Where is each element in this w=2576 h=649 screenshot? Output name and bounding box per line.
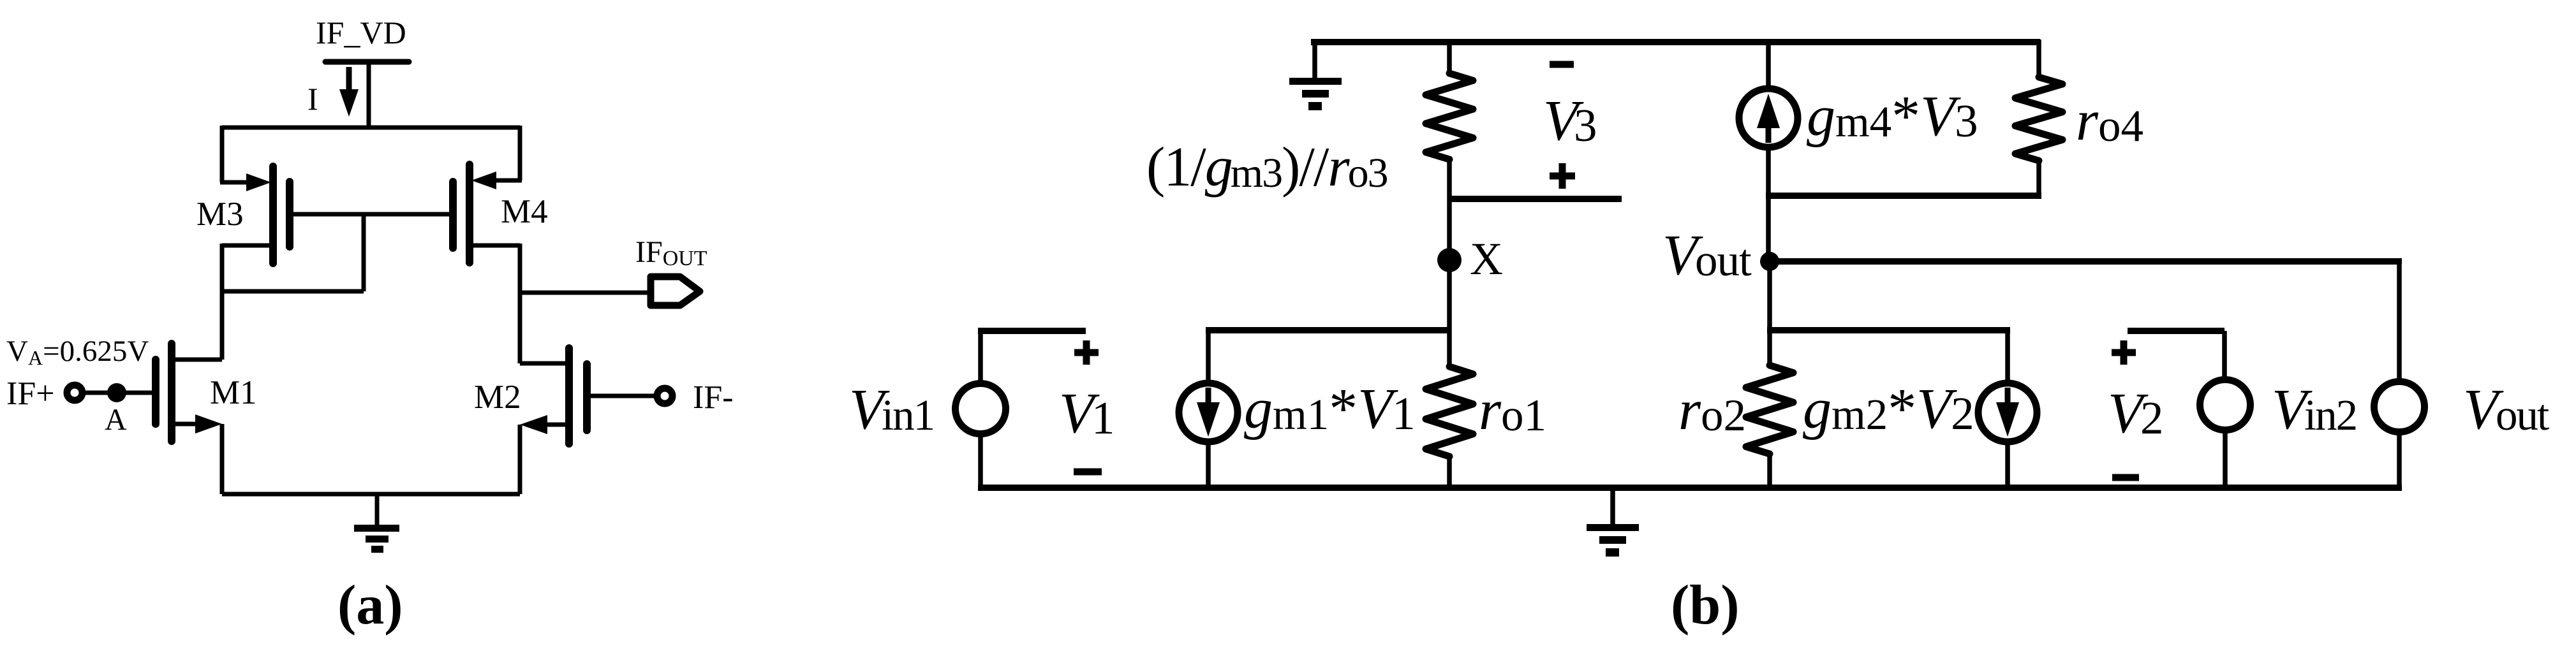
svg-text:IF_VD: IF_VD: [316, 15, 406, 50]
wire Vin1 plus stub: [978, 328, 1086, 334]
ground (a) bars: [354, 525, 399, 532]
current source gm4 circle: [1739, 89, 1798, 147]
wire Vout to ro2: [1767, 261, 1772, 330]
wire M2 gate: [591, 394, 655, 398]
wire left vertical bottom (M1 source): [220, 424, 225, 494]
transistor M4 channel bar: [466, 164, 473, 263]
transistor M3 gate bar: [286, 182, 293, 247]
svg-text:A: A: [105, 403, 127, 437]
current source gm2 arrow: [2005, 388, 2011, 405]
wire gm4 top lead: [1766, 40, 1771, 92]
transistor M2 channel bar: [565, 348, 573, 444]
wire M1 source stub: [172, 422, 204, 427]
svg-text:M3: M3: [196, 196, 244, 233]
power rail symbol IF_VD bar: [325, 59, 409, 65]
wire node A to M1 gate: [117, 391, 153, 395]
svg-text:IF+: IF+: [6, 376, 55, 412]
wire ro2/gm2 top join: [1767, 327, 2010, 333]
wire node X down: [1447, 260, 1452, 367]
wire gm4 bottom lead to Vout: [1766, 147, 1771, 261]
transistor M4 gate bar: [449, 182, 457, 248]
minus sign V1: [1074, 469, 1102, 476]
ground top-left bars: [1289, 78, 1342, 85]
wire Vout circle bottom lead: [2397, 432, 2402, 488]
current source gm4 arrow: [1757, 94, 1780, 128]
plus sign V3: [1550, 163, 1575, 189]
node A dot: [107, 383, 126, 402]
svg-text:gm2*V2: gm2*V2: [1803, 377, 1974, 441]
ground top-left stub: [1312, 40, 1317, 78]
wire M3 drain stub: [222, 244, 273, 248]
transistor M1 gate bar: [152, 360, 159, 424]
M3 source arrow: [246, 173, 271, 191]
wire M1 drain stub: [172, 358, 222, 362]
wire bottom (a): [222, 492, 520, 497]
svg-text:IF-: IF-: [693, 379, 734, 416]
wire ro1 bottom lead: [1447, 456, 1452, 488]
wire M4 drain stub: [470, 244, 520, 248]
wire IF+ to node A: [84, 391, 117, 395]
wire gate tie vertical: [362, 214, 366, 291]
svg-text:VA=0.625V: VA=0.625V: [6, 335, 149, 369]
wire gm1 bottom lead: [1206, 442, 1211, 488]
wire right vertical top (M4 source): [518, 126, 522, 180]
wire M2 drain stub: [520, 361, 569, 366]
wire bottom rail (b): [978, 485, 2402, 491]
current arrow I: [346, 67, 352, 92]
source Vin1 circle: [956, 384, 1006, 434]
wire resistor to node X: [1447, 159, 1452, 260]
wire IF_VD stem: [367, 59, 371, 128]
wire right vertical mid (M4 drain to M2 drain): [518, 244, 522, 363]
transistor M3 channel bar: [269, 166, 277, 263]
minus sign V2: [2112, 474, 2139, 481]
current source gm1 circle: [1179, 383, 1238, 442]
wire Vin1 bottom lead: [978, 434, 983, 488]
wire M3 source stub: [220, 180, 255, 185]
current source gm1 arrow: [1206, 388, 1211, 405]
wire gm4/ro4 bottom join: [1766, 193, 2041, 199]
wire gm2 top lead: [2005, 330, 2010, 383]
plus sign V1: [1074, 340, 1099, 365]
wire left vertical top (M3 source): [220, 126, 225, 182]
svg-text:M1: M1: [210, 374, 257, 411]
transistor M1 channel bar: [168, 344, 175, 441]
wire gm1 top: [1206, 327, 1449, 333]
resistor ro1 zigzag: [1426, 367, 1473, 456]
wire IF_OUT branch: [520, 291, 648, 295]
node Vout dot: [1760, 252, 1779, 271]
resistor (1/gm3)//ro3 top lead: [1447, 40, 1452, 73]
wire gate tie M3-M4: [292, 212, 450, 217]
IF_OUT flag symbol: [651, 277, 700, 305]
ground bottom-mid bars: [1587, 524, 1639, 531]
terminal IF- circle: [657, 388, 672, 404]
wire plus reference line: [1449, 196, 1622, 202]
svg-text:(b): (b): [1671, 574, 1740, 636]
svg-text:M4: M4: [501, 193, 548, 230]
M2 source arrow: [520, 415, 547, 434]
current source gm2 circle: [1978, 383, 2037, 442]
svg-text:gm4*V3: gm4*V3: [1807, 85, 1978, 148]
wire Vout horizontal: [1767, 258, 2402, 265]
wire Vin1 top lead: [978, 331, 983, 383]
resistor ro4 zigzag: [2015, 77, 2062, 161]
plus sign V2: [2112, 340, 2136, 365]
wire gate tie horizontal to drain: [222, 289, 364, 294]
wire ro4 bottom lead: [2036, 161, 2041, 198]
M4 source arrow: [471, 171, 496, 189]
M1 source arrow: [195, 414, 222, 434]
svg-text:gm1*V1: gm1*V1: [1244, 377, 1416, 441]
minus sign V3: [1550, 61, 1574, 68]
resistor (1/gm3)//ro3 zigzag: [1426, 73, 1473, 159]
source Vout circle: [2374, 382, 2425, 432]
wire top rail (b): [1312, 39, 2040, 45]
wire ro2 top lead: [1767, 330, 1772, 365]
ground (a) stub: [375, 494, 380, 525]
wire gm1 top lead: [1206, 330, 1211, 383]
terminal IF+ circle: [67, 385, 82, 400]
wire V2 bracket: [2128, 328, 2224, 334]
svg-text:X: X: [1470, 233, 1503, 284]
wire left vertical mid (M3 drain to M1 drain): [220, 244, 225, 360]
wire M2 source stub: [538, 423, 569, 427]
node X dot: [1437, 248, 1462, 272]
resistor ro2 zigzag: [1746, 365, 1793, 454]
svg-text:I: I: [307, 81, 318, 117]
transistor M2 gate bar: [583, 364, 591, 430]
wire Vin2 bottom lead: [2223, 430, 2228, 488]
resistor ro4 top lead: [2036, 40, 2041, 77]
svg-text:(a): (a): [337, 574, 403, 636]
wire M4 source stub: [485, 179, 522, 183]
wire top rail (a): [222, 126, 520, 130]
wire gm2 bottom lead: [2005, 442, 2010, 488]
wire Vout right vertical: [2397, 261, 2402, 381]
wire right vertical bottom (M2 source): [518, 425, 522, 494]
source Vin2 circle: [2200, 380, 2251, 430]
ground bottom-mid stub: [1610, 488, 1615, 524]
wire ro2 bottom lead: [1767, 454, 1772, 488]
svg-text:M2: M2: [474, 379, 521, 416]
